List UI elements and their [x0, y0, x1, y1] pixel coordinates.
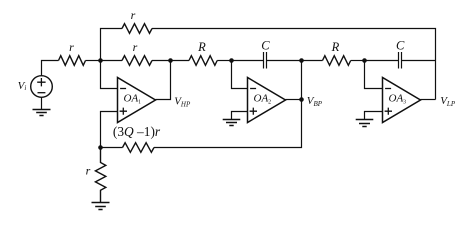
wire: node down to OA3 inverting input — [365, 61, 383, 89]
svg-text:VBP: VBP — [307, 95, 323, 108]
wire: C2 to VLP column — [402, 60, 436, 62]
wire: feedback node to (3Q-1)r — [101, 147, 123, 149]
label VLP — [440, 95, 456, 108]
svg-text:r: r — [86, 164, 91, 178]
wire: VHP node to resistor R — [171, 60, 190, 62]
svg-text:(3Q –1)r: (3Q –1)r — [113, 124, 161, 139]
wire: C1 to VBP column — [267, 60, 302, 62]
label Vi — [18, 80, 27, 92]
capacitor C1 — [264, 52, 267, 69]
svg-text:VLP: VLP — [440, 95, 456, 108]
op-amp U3 triangle — [383, 78, 421, 123]
wire: node A to OA1 inverting input — [101, 61, 118, 89]
label r (row 2) — [133, 40, 138, 54]
resistor r (top feedback) — [122, 24, 152, 34]
ground (below r) — [92, 203, 110, 210]
node: OA3 inverting node — [362, 58, 367, 63]
label r (top feedback) — [131, 8, 136, 22]
label r (ground leg) — [86, 164, 91, 178]
wire: R to OA3 inverting node — [351, 60, 365, 62]
capacitor C2 — [399, 52, 402, 69]
svg-text:R: R — [197, 40, 206, 54]
ground (OA3) — [356, 120, 374, 127]
op-amp U2 triangle — [248, 78, 286, 123]
ground (OA2) — [223, 120, 241, 126]
svg-text:Vi: Vi — [18, 80, 27, 92]
wire: top feedback to VLP column — [152, 29, 436, 100]
wire: r to node VHP — [152, 60, 171, 62]
wire: (3Q-1)r to VBP column — [154, 100, 302, 148]
wire: Vi source to ground — [41, 97, 43, 109]
wire: R to OA2 inverting node — [217, 60, 231, 62]
svg-text:C: C — [261, 39, 270, 53]
wire: Vi to input resistor r — [42, 61, 59, 76]
wire: OA1 noninverting input down to feedback node — [101, 112, 118, 148]
label VBP — [307, 95, 323, 108]
wire: node to capacitor C2 — [365, 60, 399, 62]
wire: OA2 noninverting input to ground — [232, 112, 248, 120]
resistor R (second) — [323, 56, 351, 66]
svg-text:VHP: VHP — [174, 95, 191, 108]
svg-text:r: r — [69, 40, 74, 54]
resistor R (first) — [189, 56, 217, 66]
node: bottom feedback junction — [98, 145, 103, 150]
node VBP junction — [299, 97, 304, 102]
resistor (3Q-1)r — [123, 143, 155, 153]
wire: node A up to top feedback row — [101, 29, 123, 61]
label R (second) — [331, 40, 340, 54]
wire: OA3 output to VLP column — [421, 99, 436, 101]
label (3Q-1)r — [113, 124, 161, 139]
node VHP junction — [168, 58, 173, 63]
wire: VBP feedback column — [301, 61, 303, 100]
wire: node to capacitor C1 — [232, 60, 264, 62]
label C (second) — [396, 39, 405, 53]
resistor r (row 2) — [122, 56, 152, 66]
label C (first) — [261, 39, 270, 53]
label VHP — [174, 95, 191, 108]
wire: VHP node down to OA1 output — [156, 61, 171, 100]
voltage source Vi — [31, 76, 53, 98]
wire: OA3 noninverting input to ground — [365, 112, 383, 120]
wire: input r to node A — [86, 60, 101, 62]
ground (below Vi) — [33, 110, 51, 116]
svg-text:C: C — [396, 39, 405, 53]
wire: OA2 output to VBP node — [286, 99, 302, 101]
svg-text:r: r — [131, 8, 136, 22]
wire: node A to r (row 2) — [101, 60, 123, 62]
op-amp U1 triangle — [118, 78, 156, 123]
label OA3 — [389, 93, 407, 106]
label OA2 — [254, 93, 272, 106]
label R (first) — [197, 40, 206, 54]
node A junction — [98, 58, 103, 63]
label OA1 — [124, 93, 142, 106]
node: OA2 inverting node — [229, 58, 234, 63]
wire: node down to OA2 inverting input — [232, 61, 248, 89]
resistor r (input) — [59, 56, 86, 66]
svg-text:R: R — [331, 40, 340, 54]
node: VBP top junction — [299, 58, 304, 63]
resistor r (to ground) — [95, 148, 105, 203]
wire: VBP node to resistor R (second) — [302, 60, 323, 62]
label r (input) — [69, 40, 74, 54]
svg-text:r: r — [133, 40, 138, 54]
